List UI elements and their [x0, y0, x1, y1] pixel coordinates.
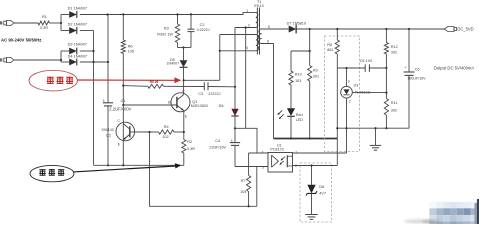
svg-text:881: 881: [327, 48, 333, 52]
svg-text:R6: R6: [128, 44, 133, 48]
svg-text:R3: R3: [164, 27, 169, 31]
svg-text:±: ±: [231, 139, 233, 143]
svg-text:R9: R9: [313, 68, 318, 72]
svg-text:0.0222J: 0.0222J: [197, 28, 210, 32]
svg-text:+: +: [404, 66, 406, 70]
svg-text:R2: R2: [187, 140, 192, 144]
svg-text:R7: R7: [241, 179, 246, 183]
svg-text:D1 1N4007: D1 1N4007: [68, 7, 87, 11]
svg-text:Output DC 5V/400mA: Output DC 5V/400mA: [434, 65, 475, 70]
svg-text:S9014C: S9014C: [102, 128, 115, 132]
svg-text:104: 104: [240, 190, 246, 194]
svg-text:2.2UF/400V: 2.2UF/400V: [109, 107, 131, 112]
svg-text:0.3R: 0.3R: [187, 147, 195, 151]
svg-text:3.3R: 3.3R: [40, 25, 48, 30]
svg-text:D6: D6: [219, 104, 224, 108]
svg-text:302: 302: [391, 108, 397, 112]
svg-text:302: 302: [391, 50, 397, 54]
svg-text:103: 103: [295, 79, 301, 83]
svg-text:LED: LED: [296, 118, 304, 122]
svg-text:D2 1N4007: D2 1N4007: [68, 22, 87, 26]
svg-text:U3: U3: [354, 83, 359, 87]
svg-text:301: 301: [313, 74, 319, 78]
svg-text:3: 3: [348, 80, 350, 84]
svg-text:Red: Red: [296, 113, 303, 117]
svg-text:5: 5: [268, 25, 270, 29]
svg-text:DC_5VD: DC_5VD: [457, 26, 473, 31]
svg-text:D8: D8: [319, 185, 324, 189]
svg-text:6: 6: [267, 39, 269, 43]
svg-text:3: 3: [262, 166, 264, 170]
svg-text:R11: R11: [391, 101, 398, 105]
svg-text:2J222J: 2J222J: [208, 92, 220, 96]
svg-text:R5 26: R5 26: [150, 80, 159, 84]
svg-text:100UF/16V: 100UF/16V: [407, 77, 426, 81]
svg-text:2: 2: [349, 100, 351, 104]
svg-text:PC817C: PC817C: [270, 147, 284, 151]
svg-text:C3: C3: [198, 92, 203, 96]
svg-text:2: 2: [295, 164, 297, 168]
svg-text:D3 1N4007: D3 1N4007: [68, 43, 87, 47]
svg-text:R1: R1: [42, 14, 47, 19]
svg-text:R4: R4: [164, 125, 169, 129]
svg-text:R10: R10: [295, 72, 302, 76]
svg-text:D4 1N4007: D4 1N4007: [68, 54, 87, 58]
svg-text:R8: R8: [327, 43, 332, 47]
svg-text:C4: C4: [215, 139, 220, 143]
svg-text:105: 105: [128, 49, 134, 53]
svg-text:4: 4: [246, 46, 248, 50]
svg-text:2: 2: [248, 23, 250, 27]
svg-text:4V7: 4V7: [319, 192, 326, 196]
svg-text:C2: C2: [200, 23, 205, 27]
svg-text:R302 1W: R302 1W: [157, 32, 173, 36]
svg-text:1N4007: 1N4007: [167, 62, 180, 66]
svg-text:MJE13003: MJE13003: [191, 104, 208, 108]
svg-text:C6: C6: [415, 67, 420, 71]
svg-text:Q2: Q2: [106, 134, 111, 138]
svg-text:102: 102: [162, 135, 168, 139]
svg-text:EE13: EE13: [254, 4, 263, 8]
svg-text:TL431CS: TL431CS: [355, 91, 371, 95]
svg-text:AC 90-240V 50/60Hz: AC 90-240V 50/60Hz: [1, 37, 41, 42]
svg-text:C5 104: C5 104: [360, 59, 372, 63]
svg-text:1: 1: [295, 150, 297, 154]
svg-text:1: 1: [246, 9, 248, 13]
svg-text:R12: R12: [391, 45, 398, 49]
svg-text:22UF/16V: 22UF/16V: [209, 145, 226, 149]
svg-text:D7 1N5819: D7 1N5819: [287, 21, 306, 25]
